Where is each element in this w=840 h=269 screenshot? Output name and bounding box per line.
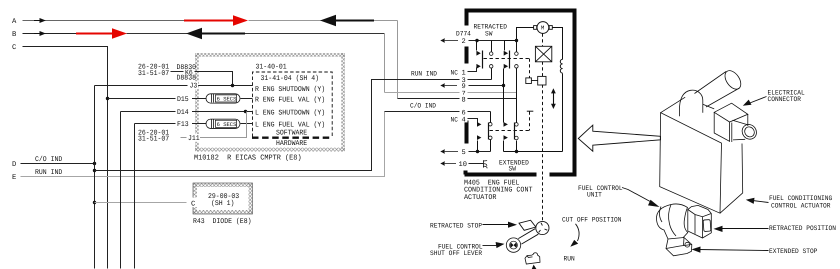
svg-text:D14: D14	[177, 109, 189, 117]
svg-text:HARDWARE: HARDWARE	[276, 140, 307, 148]
gang dashes lower	[490, 130, 530, 132]
lever hub	[506, 238, 520, 252]
wire A	[23, 20, 185, 22]
svg-text:(SH 1): (SH 1)	[211, 199, 234, 208]
svg-text:10: 10	[459, 161, 467, 169]
bottom border nub	[464, 171, 468, 175]
pin 2 wire	[469, 40, 517, 42]
3d lever assembly	[656, 204, 711, 256]
clutch small squares	[526, 76, 546, 85]
mech dashed below box to lever	[542, 177, 544, 221]
pin D14 label	[176, 107, 193, 117]
svg-text:SW: SW	[509, 166, 517, 174]
bottom border right	[550, 173, 575, 177]
arrow extended stop (from bottom)	[534, 267, 536, 269]
pin J3 label	[188, 81, 199, 90]
svg-text:EXTENDED STOP: EXTENDED STOP	[769, 248, 817, 256]
svg-text:B: B	[12, 31, 17, 39]
3d lever body	[656, 204, 687, 242]
chassis ground pin 10	[483, 160, 487, 168]
junction pin9	[502, 84, 505, 87]
pin 8	[460, 95, 468, 105]
motor M	[534, 22, 553, 34]
retracted sw left unit	[476, 41, 493, 80]
wire RUN IND to actuator pin 3	[95, 80, 492, 171]
wire F13 row	[134, 124, 136, 269]
svg-text:RUN: RUN	[564, 256, 575, 264]
svg-text:F13: F13	[177, 121, 189, 129]
coil	[560, 59, 562, 73]
svg-text:2: 2	[462, 38, 466, 46]
pin 6 wire	[385, 111, 491, 113]
extended sw right unit	[504, 122, 519, 152]
junction circles column	[515, 150, 518, 153]
svg-text:SW: SW	[485, 31, 493, 39]
left border seg3	[465, 121, 469, 144]
wire motor left brush	[517, 28, 534, 41]
arrow shut off lever	[483, 245, 497, 247]
pin 6	[460, 107, 468, 117]
svg-text:C: C	[12, 44, 17, 52]
pin 9 wire	[469, 85, 504, 87]
svg-text:ACTUATOR: ACTUATOR	[464, 194, 497, 202]
svg-text:C/O IND: C/O IND	[35, 155, 62, 164]
junction pin2/left switch	[475, 39, 478, 42]
pin 5 wire	[469, 151, 491, 153]
gang dashes upper	[484, 58, 530, 60]
wire D14 row	[120, 112, 122, 269]
wire D	[21, 163, 95, 165]
3d foot	[666, 238, 692, 256]
wire K6 to J3	[195, 72, 233, 86]
wire B black return arrow	[186, 28, 202, 40]
junction pin5/wedge	[476, 150, 479, 153]
extended stop bracket	[525, 253, 540, 264]
svg-text:RUN IND: RUN IND	[411, 70, 437, 78]
dash 31-51-07 to K6	[171, 71, 184, 73]
svg-text:CUT OFF POSITION: CUT OFF POSITION	[562, 217, 622, 225]
wire J3 horizontal	[95, 85, 253, 87]
pin 7	[460, 89, 468, 99]
software dashed box	[253, 72, 333, 137]
svg-text:NC: NC	[451, 69, 458, 77]
svg-text:31-41-04 (SH 4): 31-41-04 (SH 4)	[261, 74, 320, 83]
pin 7 wire gray	[385, 92, 517, 94]
pin 2 offsheet symbol	[441, 38, 458, 43]
svg-text:5: 5	[462, 149, 466, 157]
wire coil to lower switch	[562, 74, 564, 152]
R43 diode box hatched	[193, 183, 253, 214]
wire J3 vertical trunk	[94, 86, 96, 269]
svg-text:8: 8	[462, 97, 466, 105]
3d dome	[679, 90, 702, 116]
svg-text:4: 4	[462, 116, 466, 124]
svg-text:SHUT OFF LEVER: SHUT OFF LEVER	[430, 250, 482, 258]
travel double arrow	[551, 88, 556, 109]
3d box right face	[720, 144, 743, 214]
junction pin2/right switch	[515, 39, 518, 42]
right border	[573, 9, 577, 177]
retracted stop pad	[519, 220, 536, 230]
3d plug cylinder	[733, 120, 760, 142]
3d box top face	[661, 97, 686, 113]
svg-text:6 SECS: 6 SECS	[217, 121, 238, 128]
left border seg1	[465, 9, 469, 26]
wire B vertical to pin 7	[384, 34, 386, 93]
wire motor right brush	[552, 28, 562, 60]
3d block	[688, 205, 712, 238]
software dashed bottom thick	[252, 136, 333, 138]
pin 4 wire	[468, 119, 478, 123]
svg-text:CONTROL ACTUATOR: CONTROL ACTUATOR	[771, 202, 831, 210]
3d connector cube	[714, 103, 748, 142]
wire D15 row	[108, 98, 207, 100]
svg-text:CONNECTOR: CONNECTOR	[768, 96, 802, 104]
svg-text:31-40-01: 31-40-01	[256, 64, 287, 72]
junction diode tap	[93, 201, 96, 204]
svg-text:NC: NC	[451, 116, 458, 124]
svg-text:M10182 R EICAS CMPTR (E8): M10182 R EICAS CMPTR (E8)	[194, 154, 302, 163]
3d box front face	[660, 97, 743, 213]
wire D15 to box	[241, 98, 253, 100]
svg-text:R43 DIODE (E8): R43 DIODE (E8)	[193, 217, 252, 226]
pin J11 label	[187, 134, 201, 143]
svg-text:A: A	[12, 18, 17, 26]
arrow fuel control unit	[622, 188, 652, 203]
brake crossed box	[535, 46, 551, 62]
curved arrow cut off to run	[576, 224, 580, 241]
wire J11	[181, 112, 247, 138]
pin F13 label	[176, 120, 193, 130]
svg-text:RUN IND: RUN IND	[35, 169, 62, 177]
wire A red flow arrow	[184, 20, 234, 22]
wire circle2 to pins 7/8 column	[516, 69, 518, 123]
junction K6/J3	[231, 84, 234, 87]
svg-text:R ENG FUEL VAL (Y): R ENG FUEL VAL (Y)	[255, 96, 325, 105]
svg-text:D: D	[12, 161, 16, 169]
pointer arrow to schematic	[578, 125, 660, 151]
mech dashed brake to clutch	[542, 62, 544, 77]
wire A black return arrow	[320, 15, 336, 27]
retracted sw right unit	[504, 41, 518, 69]
arrow fuel conditioning	[753, 201, 769, 203]
extended sw left unit	[477, 112, 492, 152]
wire F13 to box	[241, 123, 253, 125]
EICAS box hatched border	[195, 53, 345, 152]
svg-text:31-51-07: 31-51-07	[138, 136, 169, 144]
mech dashed line motor-brake	[542, 34, 544, 47]
arrow extended stop right	[699, 250, 769, 251]
pin 9 offsheet symbol	[441, 83, 457, 88]
timer 6 SECS D15	[206, 94, 240, 104]
wire A arrowhead small	[34, 19, 45, 23]
pin 1 wire	[468, 68, 477, 72]
wire B red flow arrow	[76, 33, 113, 35]
top border	[465, 9, 576, 13]
svg-text:6 SECS: 6 SECS	[217, 96, 238, 103]
lever arm	[518, 229, 538, 244]
wire lower right to coil	[504, 151, 563, 153]
pin 10 offsheet symbol	[441, 161, 456, 166]
pin D15 label	[176, 95, 193, 105]
arrow electrical connector	[749, 97, 767, 104]
svg-text:M: M	[541, 25, 545, 32]
mech dashed below clutch	[542, 85, 544, 175]
timer 6 SECS F13	[206, 119, 240, 128]
3d cylinder	[695, 68, 745, 107]
wire B	[23, 33, 77, 35]
svg-text:C: C	[191, 200, 196, 208]
wire A vertical to pin 8	[397, 21, 399, 99]
junction D14/J11	[244, 110, 247, 113]
junction D	[93, 162, 96, 165]
wire C	[23, 47, 108, 269]
lever upper circle	[536, 221, 549, 234]
wire wedge to pin9 column	[503, 69, 505, 123]
svg-text:L ENG SHUTDOWN (Y): L ENG SHUTDOWN (Y)	[255, 109, 325, 118]
svg-text:C/O IND: C/O IND	[410, 103, 436, 111]
svg-text:D15: D15	[177, 96, 189, 104]
bottom border left	[465, 173, 537, 177]
junction RUN IND tap	[93, 169, 96, 172]
svg-text:SOFTWARE: SOFTWARE	[276, 129, 307, 137]
left border seg2	[465, 47, 469, 64]
svg-text:L ENG FUEL VAL (Y): L ENG FUEL VAL (Y)	[255, 121, 325, 130]
pin 8 wire	[398, 98, 517, 100]
svg-text:J11: J11	[188, 135, 200, 143]
svg-text:UNIT: UNIT	[587, 192, 602, 200]
mech anchor T lower	[527, 110, 534, 112]
junction wire C / D15	[106, 97, 109, 100]
diode terminal C	[189, 198, 197, 209]
svg-text:RETRACTED POSITION: RETRACTED POSITION	[769, 225, 836, 233]
svg-text:31-51-07: 31-51-07	[138, 70, 169, 78]
svg-text:R ENG SHUTDOWN (Y): R ENG SHUTDOWN (Y)	[255, 85, 325, 94]
pin 3	[460, 75, 468, 85]
pin 10 wire	[469, 163, 484, 165]
wire B arrowhead small	[34, 32, 45, 36]
svg-text:E: E	[12, 174, 16, 182]
svg-text:J3: J3	[190, 83, 198, 91]
arrow retracted position	[720, 228, 769, 230]
svg-text:RETRACTED STOP: RETRACTED STOP	[430, 222, 482, 230]
wire to diode C	[95, 202, 187, 204]
wire E (gray) to C/O IND pin 6	[21, 112, 385, 177]
pin 5 offsheet symbol	[441, 149, 458, 154]
mech dashed gang link upper	[529, 59, 531, 78]
actuator thick border	[465, 9, 576, 177]
arrow retracted stop	[483, 224, 509, 226]
